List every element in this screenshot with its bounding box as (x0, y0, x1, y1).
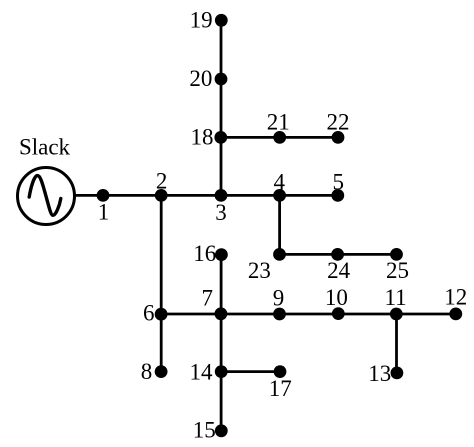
svg-text:6: 6 (143, 301, 155, 326)
svg-text:10: 10 (325, 285, 348, 310)
svg-text:11: 11 (385, 285, 407, 310)
svg-text:16: 16 (193, 241, 216, 266)
svg-text:3: 3 (215, 200, 227, 225)
svg-text:20: 20 (189, 66, 212, 91)
svg-text:23: 23 (248, 258, 271, 283)
svg-text:25: 25 (386, 258, 409, 283)
svg-text:8: 8 (141, 359, 153, 384)
svg-text:9: 9 (273, 285, 285, 310)
svg-text:14: 14 (190, 359, 214, 384)
svg-text:12: 12 (444, 284, 467, 309)
svg-text:19: 19 (190, 8, 213, 33)
svg-text:1: 1 (98, 200, 110, 225)
svg-text:7: 7 (202, 285, 214, 310)
svg-text:22: 22 (327, 109, 350, 134)
svg-text:17: 17 (269, 376, 292, 401)
svg-text:13: 13 (368, 361, 391, 386)
svg-text:2: 2 (156, 168, 168, 193)
svg-text:15: 15 (193, 418, 216, 443)
svg-text:5: 5 (332, 170, 344, 195)
svg-text:4: 4 (273, 170, 285, 195)
svg-text:18: 18 (191, 125, 214, 150)
svg-text:24: 24 (327, 258, 351, 283)
svg-text:Slack: Slack (19, 135, 71, 160)
svg-text:21: 21 (267, 109, 290, 134)
